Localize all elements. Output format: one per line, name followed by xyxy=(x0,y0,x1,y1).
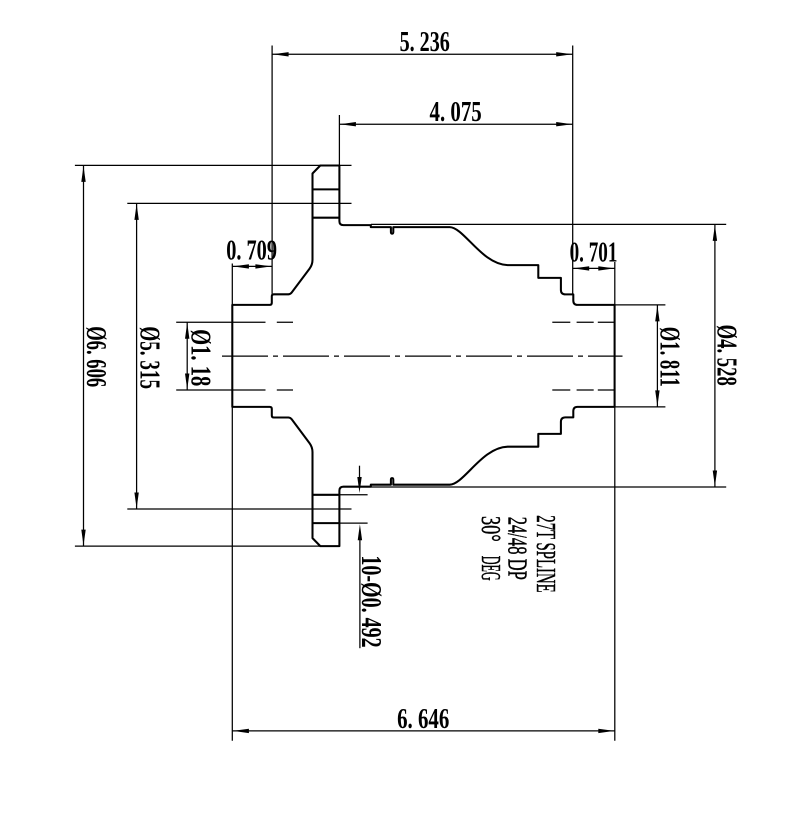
dimension &#216;6.606 xyxy=(75,165,352,546)
dimension &#216;4.528 xyxy=(371,224,726,487)
dimension &#216;1.811 xyxy=(615,305,666,407)
bolt hole section (bottom flange) xyxy=(313,495,340,523)
svg-text:Ø4. 528: Ø4. 528 xyxy=(710,325,742,386)
bolt hole section (top flange) xyxy=(313,189,340,217)
svg-text:4. 075: 4. 075 xyxy=(430,96,482,128)
centerline xyxy=(222,355,623,357)
dimension 5.236 xyxy=(272,46,573,294)
spline minor diameter hidden lines (right hub bore) xyxy=(552,322,614,390)
dimension 0.709 xyxy=(232,264,272,305)
svg-text:10-Ø0. 492: 10-Ø0. 492 xyxy=(355,555,386,647)
svg-text:0. 701: 0. 701 xyxy=(570,237,618,269)
dimension 0.701 xyxy=(573,262,615,305)
dimension 4.075 xyxy=(339,115,572,166)
svg-text:27T SPLINE: 27T SPLINE xyxy=(531,515,561,592)
svg-text:Ø6. 606: Ø6. 606 xyxy=(80,326,112,387)
note 27T SPLINE 24/48 DP 30 DEG xyxy=(476,515,561,592)
dimension &#216;1.18 xyxy=(176,322,232,390)
spline minor diameter hidden lines (left shaft) xyxy=(232,322,293,390)
svg-text:30°: 30° xyxy=(476,516,506,542)
svg-text:Ø5. 315: Ø5. 315 xyxy=(133,326,165,389)
leader 10-&#216;0.492 (bolt hole callout) xyxy=(339,466,367,649)
dimension 6.646 xyxy=(232,407,615,741)
dimension &#216;5.315 xyxy=(127,203,351,509)
svg-text:6. 646: 6. 646 xyxy=(397,703,449,735)
svg-text:DEG: DEG xyxy=(476,556,507,581)
part outline (hub/flange cross-section) xyxy=(232,166,614,547)
svg-text:Ø1. 18: Ø1. 18 xyxy=(184,329,215,386)
svg-text:5. 236: 5. 236 xyxy=(400,26,450,57)
svg-text:Ø1. 811: Ø1. 811 xyxy=(653,327,685,387)
svg-text:0. 709: 0. 709 xyxy=(226,235,277,266)
